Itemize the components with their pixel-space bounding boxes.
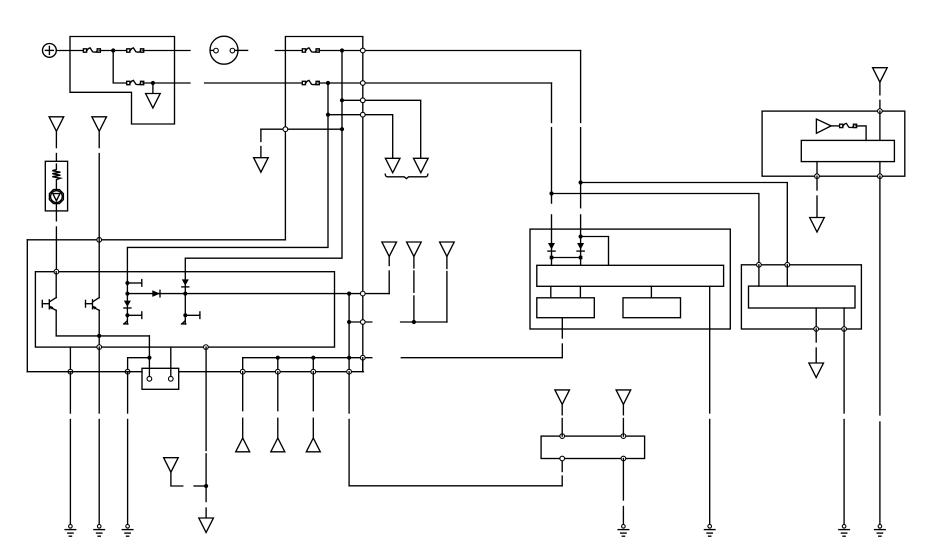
connector C1 circle 2P: [210, 36, 248, 64]
diode network column 1: [124, 272, 142, 324]
wire row1 to dive point: [320, 50, 581, 52]
lead up to triangle row right 1: [388, 257, 390, 294]
wire rail to relay: [349, 372, 562, 486]
indicator lamp box: [45, 161, 67, 211]
lead triangle right row 3: [446, 257, 448, 322]
turn signal unit box right: [741, 265, 861, 329]
wires top terminals to inner rect: [759, 265, 787, 286]
fuse F2: [127, 48, 144, 52]
wire horn top terminal to inner rect: [879, 111, 881, 140]
fuse box 2 outline: [285, 37, 362, 372]
T1 lead dashes: [55, 131, 57, 161]
connector triangle below horn: [810, 218, 825, 233]
wire row 322: [347, 320, 447, 325]
connector circle row 293.6: [360, 291, 365, 296]
lead to up triangle 3: [312, 372, 314, 438]
lead to up triangle 1: [242, 372, 244, 438]
link long rect to left sub rect 2: [579, 286, 581, 298]
ground wire left3: [127, 372, 129, 524]
wire line1 y239.8: [27, 239, 285, 241]
terminal circles top: [757, 262, 790, 267]
wire F2 to connector: [144, 50, 190, 52]
coil glyph in horn unit: [840, 123, 857, 127]
up connector triangle 2: [271, 438, 285, 452]
horn right terminal long ground wire: [879, 176, 881, 524]
connector triangle right row 1: [382, 242, 397, 257]
lead triangle to relay left: [561, 405, 563, 437]
branch to ground wire: [128, 358, 150, 372]
lead triangle to horn unit: [879, 82, 881, 111]
diode unit output right to ground: [709, 286, 711, 524]
ground symbol left3: [122, 525, 133, 537]
bracket under triangle pair: [385, 174, 428, 178]
terminal circle top of control unit: [54, 269, 59, 274]
relay box bottom center: [541, 436, 645, 458]
long drop row2 x551.5: [549, 83, 553, 229]
wire row2 to dive point: [320, 82, 552, 84]
junction dot row1 at x342: [340, 48, 344, 52]
resistor zigzag: [52, 164, 60, 190]
lead to triangle below right unit: [815, 329, 817, 363]
horn inner rectangle: [801, 140, 894, 161]
connector block terminal 2: [168, 376, 173, 381]
connector circle lower rail x127.6: [125, 369, 130, 374]
lower rail left segment: [27, 371, 142, 373]
battery B1: [43, 44, 57, 58]
emitter rail inside control unit: [56, 335, 149, 337]
diode unit output to upper rail: [561, 318, 563, 358]
emitter rail corner down: [148, 336, 150, 376]
terminal circle bottom of control unit 2: [204, 345, 209, 350]
upper rail y357.7: [243, 355, 563, 360]
wire row4 to right triangle: [326, 112, 393, 158]
wire row3 to right triangle: [340, 98, 421, 158]
ground symbol left1: [65, 525, 76, 537]
connector triangle below right unit: [809, 363, 824, 378]
lead triangle right row 2: [413, 257, 415, 322]
lead to triangle below junction: [152, 83, 154, 94]
wire F1 to F2: [101, 50, 126, 52]
inter-rail link x349.1: [348, 358, 350, 372]
wire coil to inner rect: [857, 126, 866, 140]
diode D5: [548, 229, 555, 265]
inner rect to bottom terminals: [814, 308, 847, 331]
ground symbol horn: [875, 525, 886, 537]
branch wire y182.5: [581, 183, 788, 265]
terminal circle bottom of control unit: [97, 345, 102, 350]
connector triangle right row 2: [407, 242, 422, 257]
connector triangle pair B: [414, 158, 429, 173]
vertical bus x328 row2 feed: [127, 83, 328, 272]
connector circle lower rail x70.4: [68, 369, 73, 374]
fuse box 1 outline: [70, 37, 175, 125]
inter-rail link x277.8: [277, 358, 279, 372]
left drop wire to lower rail: [26, 240, 28, 372]
horn unit box top right: [762, 111, 905, 176]
wire row2 into fuse box 2: [205, 82, 302, 84]
buzzer symbol: [816, 119, 839, 133]
inter-rail link x313.3: [312, 358, 314, 372]
terminal circle horn top: [878, 109, 883, 114]
connector triangle pair A: [385, 158, 400, 173]
wire row5 from left triangle: [261, 127, 344, 158]
ground symbol left2: [94, 525, 105, 537]
connector triangle above relay left: [555, 390, 570, 405]
stub control unit to rail x70.4: [69, 347, 71, 372]
ground symbol right unit: [839, 525, 850, 537]
fuse F4 row1: [302, 48, 319, 52]
junction dot on emitter rail: [97, 334, 101, 338]
fuse F5 row2: [302, 80, 319, 84]
rail connector circles: [240, 369, 351, 374]
T2 lead to control unit: [98, 131, 100, 297]
lead horn to triangle below: [816, 176, 818, 217]
lead to up triangle 2: [277, 372, 279, 438]
junction dot row 293.6: [347, 292, 351, 296]
vertical link x349: [348, 294, 350, 358]
wire control unit to bottom triangle: [204, 347, 208, 518]
link long rect to left sub rect 1: [550, 286, 552, 298]
vertical bus x342 row1 feed: [185, 51, 342, 272]
connector block terminal 1: [147, 376, 152, 381]
connector circle row1: [360, 48, 365, 53]
diode unit box: [530, 229, 730, 329]
connector triangle below fuse box 1: [146, 94, 161, 109]
connector triangle T2: [92, 117, 107, 132]
ground wire left1: [69, 372, 71, 524]
connector triangle above horn unit: [873, 68, 888, 83]
inter-rail link x362.8: [362, 358, 364, 372]
lower rail right segment: [179, 371, 364, 373]
connector circle row2: [360, 81, 365, 86]
branch from D6 anode: [581, 237, 609, 266]
right unit ground wire: [843, 329, 845, 524]
fuse F1: [83, 48, 100, 52]
connector triangle right row 3: [440, 242, 455, 257]
wire control unit to connector block: [170, 347, 172, 376]
drop from rail to bottom edge: [98, 336, 100, 347]
ground symbol diode unit: [704, 525, 715, 537]
junction dot row2 at x328: [326, 81, 330, 85]
diode D1 horizontal: [127, 290, 334, 297]
diode network column 2: [182, 272, 200, 324]
junction dot on rail drop: [147, 356, 151, 360]
transistor Q1: [42, 272, 56, 336]
junction dot row1/row2 feed: [111, 48, 115, 52]
branch wire y193.5: [552, 194, 759, 265]
lamp lead below: [55, 203, 57, 272]
inner rectangle right unit: [749, 286, 856, 308]
connector block box: [142, 368, 179, 389]
diode unit sub rectangle right: [623, 298, 681, 318]
connector triangle row5: [254, 158, 269, 173]
bulb: [49, 190, 63, 204]
control unit box: [35, 272, 334, 347]
junction dot row2: [151, 81, 155, 85]
connector triangle bottom center: [199, 518, 214, 533]
horn inner rect to bottom terminals: [815, 162, 883, 179]
diode unit long rectangle: [537, 265, 724, 286]
up connector triangle 1: [236, 438, 250, 452]
wire down to row 2: [113, 51, 126, 84]
wire row 293.6 control unit output: [335, 293, 390, 295]
wire battery to fuse box: [56, 50, 83, 52]
lead triangle to relay right: [622, 405, 624, 437]
link long rect to right sub rect: [650, 286, 652, 298]
fuse F3: [127, 80, 144, 84]
connector triangle T4: [164, 458, 179, 473]
relay terminal circles: [560, 434, 626, 461]
connector triangle above relay right: [616, 390, 631, 405]
inter-rail link x242.7: [242, 358, 244, 372]
connector triangle T1: [49, 117, 64, 132]
transistor Q2: [86, 298, 100, 336]
T4 lead to junction: [171, 472, 206, 486]
connector circle on line1: [97, 237, 102, 242]
diode unit sub rectangle left: [537, 298, 595, 318]
link between diode cathodes: [552, 257, 581, 259]
up connector triangle 3: [306, 438, 320, 452]
wire F3 to box edge: [144, 82, 190, 84]
long drop row1 x580.6: [579, 51, 583, 230]
relay right to ground: [622, 459, 624, 525]
diode D6: [577, 229, 584, 265]
wire row1 into fuse box 2: [275, 50, 302, 52]
ground symbol relay: [618, 525, 629, 537]
ground wire left2: [98, 347, 100, 524]
